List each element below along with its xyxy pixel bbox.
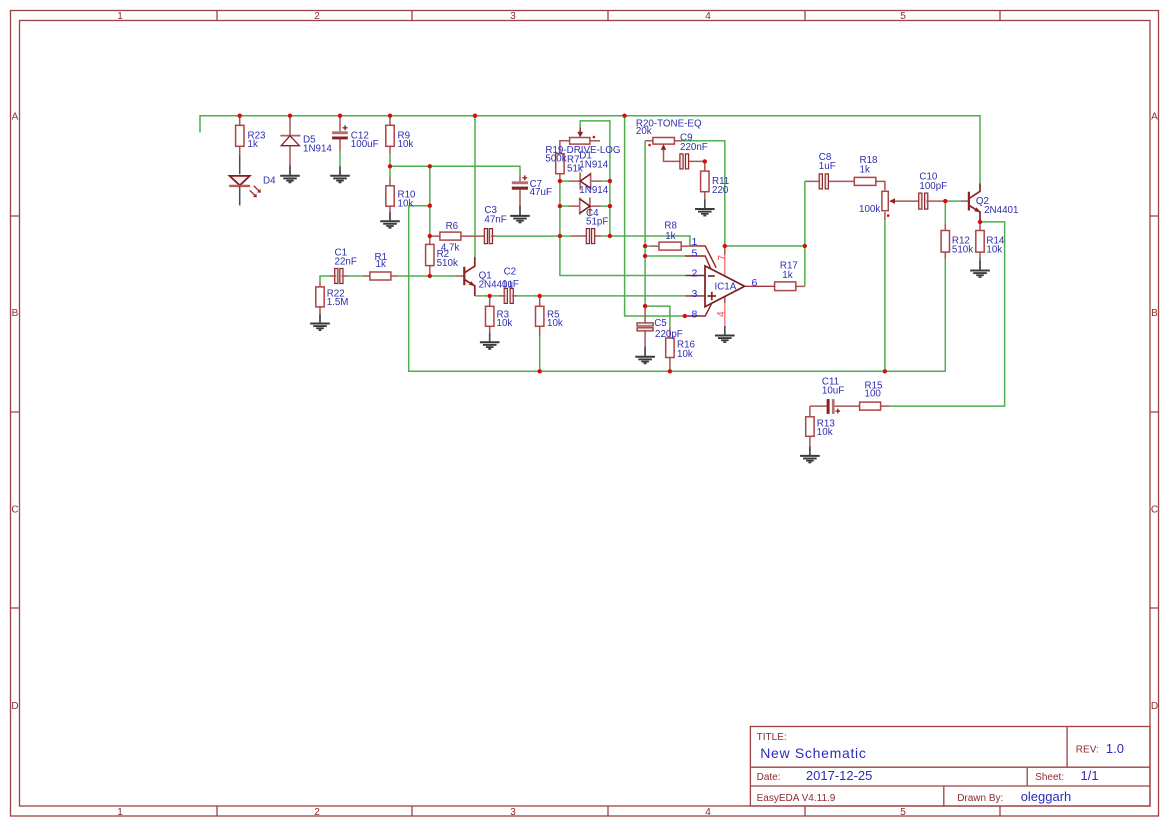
svg-text:10k: 10k (677, 349, 693, 360)
wire long bottom loop (409, 206, 946, 372)
svg-text:500k: 500k (545, 154, 566, 165)
svg-text:C: C (11, 505, 18, 516)
wire C4 row right to pin1 (602, 236, 690, 246)
wire D3 left stub (560, 205, 569, 207)
capacitor C10 (919, 193, 946, 209)
wire C12 lower (339, 151, 341, 169)
resistor R5 (536, 296, 544, 337)
svg-text:3: 3 (692, 288, 698, 300)
resistor R10 (386, 177, 394, 215)
capacitor C12 (332, 116, 348, 151)
capacitor C3 (484, 229, 496, 244)
svg-text:1N914: 1N914 (579, 159, 608, 170)
svg-text:47uF: 47uF (530, 187, 552, 198)
wire C1 to R22 (320, 276, 330, 281)
svg-text:100k: 100k (859, 204, 880, 215)
svg-text:oleggarh: oleggarh (1021, 789, 1072, 804)
wire R9 bottom node vertical (389, 154, 391, 177)
resistor R18 (854, 177, 885, 190)
svg-text:R6: R6 (446, 221, 459, 232)
wire R5 bottom (539, 337, 541, 372)
wire C10 node to R12 (944, 201, 946, 223)
ground (R10) (380, 212, 400, 228)
capacitor C7 (512, 175, 528, 206)
svg-text:REV:: REV: (1076, 745, 1099, 756)
title block (750, 727, 1150, 807)
wire vertical x430 (429, 166, 431, 236)
potentiometer R20-TONE-EQ (645, 138, 682, 162)
resistor R13 (806, 406, 814, 446)
svg-text:1/1: 1/1 (1081, 768, 1099, 783)
wire diode chain left vertical to pin2 (560, 181, 686, 275)
svg-text:1N914: 1N914 (579, 185, 608, 196)
wire pin5 row (645, 255, 685, 257)
resistor R1 (363, 272, 398, 280)
svg-text:4: 4 (705, 807, 711, 818)
svg-text:1.5M: 1.5M (327, 297, 349, 308)
ground (R13) (800, 446, 820, 462)
ground (R3) (480, 333, 500, 349)
svg-text:4: 4 (705, 11, 711, 22)
svg-text:1k: 1k (248, 139, 258, 150)
capacitor C4 (571, 229, 602, 244)
svg-text:C2: C2 (504, 267, 517, 278)
svg-text:1k: 1k (376, 259, 386, 270)
resistor R14 (976, 222, 984, 258)
wire R17 to C8 riser (804, 181, 806, 286)
svg-text:2: 2 (314, 11, 320, 22)
wire D1 right stub (601, 180, 610, 182)
resistor R15 (860, 402, 890, 410)
capacitor C5 (637, 306, 653, 346)
transistor Q1 (456, 257, 475, 296)
svg-text:C: C (1151, 505, 1158, 516)
diode D5 (280, 116, 300, 165)
ground (D5) (280, 164, 300, 182)
svg-text:2: 2 (692, 268, 698, 280)
svg-text:6: 6 (752, 277, 758, 289)
ground (R22) (310, 314, 330, 330)
svg-text:EasyEDA V4.11.9: EasyEDA V4.11.9 (757, 793, 836, 804)
svg-text:B: B (12, 308, 19, 319)
svg-text:1.0: 1.0 (1106, 741, 1124, 756)
wire R19 wiper loop (580, 121, 610, 236)
resistor R8 (651, 242, 690, 250)
capacitor C1 (330, 269, 348, 284)
svg-text:D4: D4 (263, 176, 276, 187)
resistor R9 (386, 116, 394, 155)
junction dots (238, 114, 983, 374)
svg-text:2: 2 (314, 807, 320, 818)
svg-text:220nF: 220nF (680, 142, 708, 153)
wire Q1 collector riser (474, 116, 476, 258)
resistor R3 (486, 296, 494, 336)
wire R9 node to C7 (390, 166, 520, 175)
svg-text:Date:: Date: (757, 772, 781, 783)
resistor R2 (426, 236, 434, 276)
transistor Q2 (961, 184, 980, 222)
svg-text:510k: 510k (437, 258, 458, 269)
svg-text:10k: 10k (497, 318, 513, 329)
svg-text:10k: 10k (398, 139, 414, 150)
ground (IC1A pin4) (715, 326, 735, 342)
resistor R23 (236, 116, 244, 155)
svg-text:10k: 10k (817, 427, 833, 438)
svg-text:1k: 1k (782, 270, 792, 281)
wire rail to pin8 row (625, 116, 685, 316)
svg-text:20k: 20k (636, 126, 652, 137)
ground (R14) (970, 257, 990, 277)
svg-text:1uF: 1uF (502, 279, 519, 290)
svg-text:A: A (12, 112, 19, 123)
svg-text:22nF: 22nF (335, 256, 357, 267)
svg-text:2017-12-25: 2017-12-25 (806, 768, 873, 783)
svg-text:1uF: 1uF (819, 161, 836, 172)
diode D3 (1N914) (569, 198, 601, 215)
wire VCC top rail (200, 116, 980, 184)
svg-text:10k: 10k (547, 318, 563, 329)
svg-text:IC1A: IC1A (715, 282, 737, 293)
potentiometer 100k (882, 191, 920, 219)
wire C2 to op-amp pin3 (518, 295, 686, 297)
svg-text:TITLE:: TITLE: (757, 732, 787, 743)
capacitor C8 (805, 174, 855, 189)
wire Q1 emitter row to C2 (475, 295, 499, 297)
svg-text:New Schematic: New Schematic (760, 745, 866, 761)
wire R20 right to pin7 node (682, 141, 725, 246)
resistor R16 (666, 328, 674, 372)
svg-text:100uF: 100uF (351, 139, 379, 150)
resistor R17 (775, 282, 805, 291)
resistor R12 (941, 224, 949, 259)
svg-text:4: 4 (716, 311, 727, 317)
ground (R11) (695, 200, 715, 216)
svg-text:1k: 1k (860, 164, 870, 175)
svg-text:1: 1 (117, 11, 123, 22)
capacitor C11 (810, 399, 860, 414)
resistor R22 (316, 281, 324, 314)
ground (C7) (510, 206, 530, 223)
svg-text:100: 100 (865, 389, 882, 400)
svg-text:3: 3 (510, 807, 516, 818)
op-amp IC1A (685, 246, 775, 326)
potentiometer R19-DRIVE-LOG (570, 128, 600, 145)
svg-text:10k: 10k (398, 198, 414, 209)
resistor R7 (556, 141, 570, 181)
svg-text:D: D (11, 701, 18, 712)
svg-text:220: 220 (712, 185, 729, 196)
svg-text:Drawn By:: Drawn By: (957, 793, 1003, 804)
wire C4 row left (496, 235, 571, 237)
wire Q2 emitter to R15 (890, 222, 1005, 406)
wire R20 left pin vertical (644, 141, 646, 306)
svg-text:A: A (1151, 112, 1158, 123)
wire R23 to D4 (black) (239, 154, 241, 174)
resistor R6 (430, 232, 486, 240)
svg-text:100pF: 100pF (919, 181, 947, 192)
wire pin7 row (725, 245, 805, 247)
wire C1 to R1 (348, 275, 363, 277)
wire R8 left stub (645, 245, 650, 247)
svg-text:7: 7 (717, 254, 728, 260)
diode D1 (569, 173, 601, 190)
svg-text:5: 5 (900, 11, 906, 22)
wire C5 node to R16 (645, 306, 670, 327)
wire pot100k bottom (884, 220, 886, 372)
svg-text:2N4401: 2N4401 (984, 205, 1018, 216)
svg-text:510k: 510k (952, 245, 973, 256)
svg-text:10uF: 10uF (822, 385, 844, 396)
svg-text:D: D (1151, 701, 1158, 712)
svg-text:C5: C5 (654, 318, 667, 329)
svg-text:B: B (1151, 308, 1158, 319)
svg-text:51pF: 51pF (586, 216, 608, 227)
svg-text:1: 1 (692, 236, 698, 248)
wire R1 to Q1 base (398, 275, 456, 277)
capacitor C9 (671, 154, 705, 169)
ground (C12) (330, 166, 350, 182)
svg-text:1k: 1k (665, 231, 675, 242)
capacitor C2 (499, 288, 518, 303)
resistor R11 (701, 161, 709, 200)
wire stub to loop (409, 205, 430, 207)
svg-text:10k: 10k (986, 245, 1002, 256)
svg-text:47nF: 47nF (484, 215, 506, 226)
svg-text:5: 5 (692, 248, 698, 260)
svg-text:1: 1 (117, 807, 123, 818)
ground (C5) (635, 346, 655, 364)
wire D1 left stub (560, 180, 569, 182)
wire D3 right stub (601, 205, 610, 207)
wire C10 to Q2 base (945, 200, 961, 202)
LED D4 (229, 176, 261, 206)
svg-text:8: 8 (692, 309, 698, 321)
svg-text:5: 5 (900, 807, 906, 818)
svg-text:1N914: 1N914 (303, 143, 332, 154)
svg-text:3: 3 (510, 11, 516, 22)
svg-text:Sheet:: Sheet: (1035, 772, 1064, 783)
